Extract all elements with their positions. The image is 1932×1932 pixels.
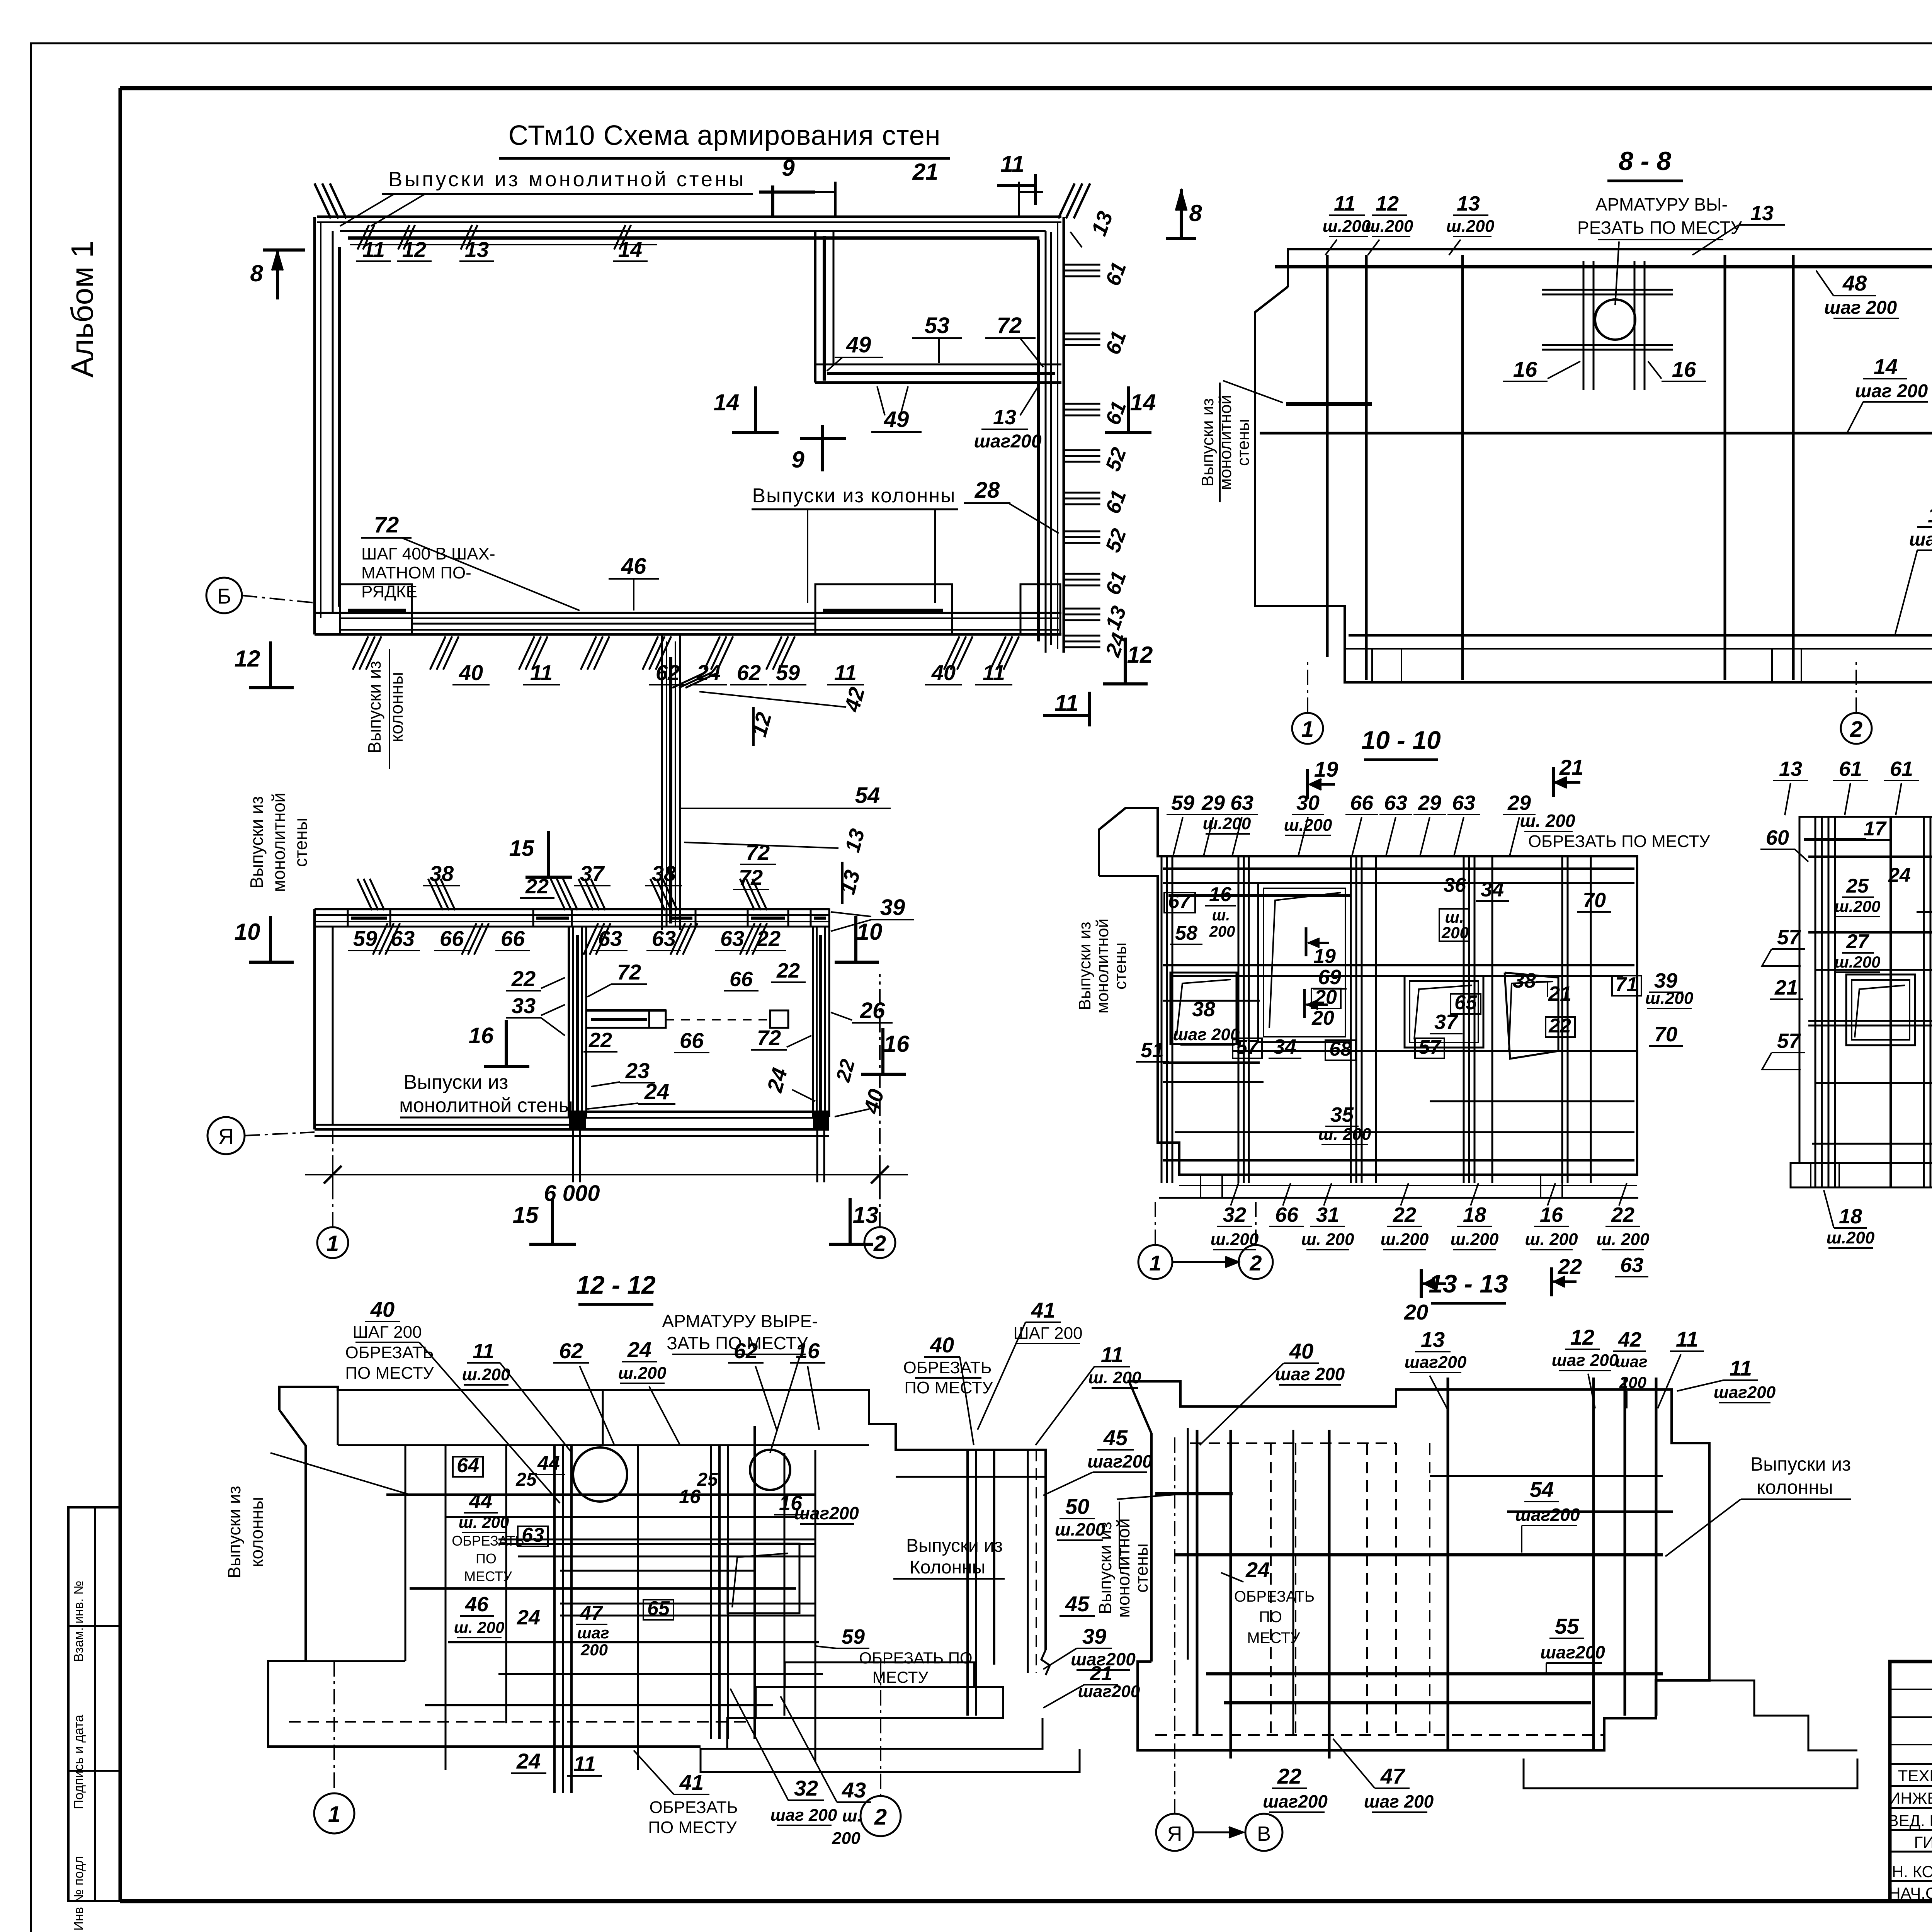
12-12 outline [279, 1387, 1046, 1650]
title block outer [1890, 1662, 1932, 1901]
svg-text:38: 38 [1192, 998, 1215, 1021]
svg-text:ОБРЕЗАТЬ: ОБРЕЗАТЬ [903, 1358, 992, 1377]
svg-text:59: 59 [1171, 791, 1194, 815]
svg-text:колонны: колонны [1757, 1476, 1833, 1498]
svg-text:ш. 200: ш. 200 [1088, 1368, 1142, 1387]
svg-text:ШАГ 400 В ШАХ-: ШАГ 400 В ШАХ- [361, 544, 495, 563]
svg-text:ш. 200: ш. 200 [1301, 1230, 1355, 1249]
svg-text:21: 21 [912, 159, 939, 185]
svg-text:ш.200: ш.200 [1446, 217, 1495, 236]
svg-text:13: 13 [1457, 192, 1480, 215]
svg-text:22: 22 [1277, 1764, 1301, 1788]
svg-text:37: 37 [1434, 1010, 1459, 1034]
svg-text:48: 48 [1842, 271, 1867, 295]
axis circle 2 plan [864, 1227, 895, 1258]
svg-text:54: 54 [855, 783, 880, 808]
svg-text:10: 10 [235, 919, 260, 945]
svg-text:12: 12 [1376, 192, 1399, 215]
svg-text:22: 22 [1611, 1203, 1634, 1226]
svg-text:10: 10 [857, 919, 883, 945]
svg-text:64: 64 [457, 1454, 479, 1477]
svg-text:монолитной стены: монолитной стены [399, 1094, 573, 1117]
svg-text:40: 40 [1289, 1339, 1313, 1363]
svg-text:ГИП: ГИП [1914, 1833, 1932, 1851]
svg-text:ш.200: ш.200 [1203, 814, 1251, 833]
svg-text:72: 72 [997, 313, 1022, 338]
svg-text:Выпуски из: Выпуски из [906, 1536, 1003, 1556]
svg-text:72: 72 [746, 840, 770, 864]
svg-text:шаг200: шаг200 [1078, 1682, 1140, 1701]
svg-text:40: 40 [931, 660, 956, 685]
ticks top-left corner [315, 184, 331, 219]
svg-text:шаг200: шаг200 [974, 431, 1041, 452]
svg-text:монолитной: монолитной [1113, 1518, 1133, 1617]
svg-text:колонны: колонны [247, 1497, 267, 1567]
10-10 outline [1099, 808, 1637, 1175]
svg-text:11: 11 [1334, 192, 1355, 215]
svg-text:25: 25 [515, 1469, 537, 1490]
svg-text:12: 12 [402, 237, 426, 262]
svg-text:ш. 200: ш. 200 [1597, 1230, 1650, 1249]
svg-text:54: 54 [1530, 1477, 1554, 1502]
svg-text:Б: Б [217, 584, 231, 608]
svg-text:44: 44 [469, 1490, 492, 1513]
svg-text:ш. 200: ш. 200 [459, 1513, 509, 1531]
svg-text:Выпуски из колонны: Выпуски из колонны [752, 485, 956, 507]
svg-text:ш.200: ш.200 [1834, 897, 1880, 915]
plan left wall lower segment [313, 909, 316, 1129]
axis circle Ya [207, 1117, 245, 1154]
svg-text:40: 40 [459, 660, 483, 685]
svg-text:21: 21 [1774, 976, 1798, 999]
svg-text:ОБРЕЗАТЬ ПО МЕСТУ: ОБРЕЗАТЬ ПО МЕСТУ [1528, 832, 1711, 851]
svg-text:45: 45 [1065, 1592, 1090, 1616]
svg-text:63: 63 [1620, 1253, 1643, 1277]
svg-text:65: 65 [1454, 992, 1477, 1014]
top wall bar labels 11 12 13 14 [357, 225, 369, 249]
svg-text:ИНЖЕНЕР: ИНЖЕНЕР [1889, 1789, 1932, 1807]
svg-text:63: 63 [1384, 791, 1407, 815]
svg-text:шаг 200: шаг 200 [1173, 1025, 1240, 1044]
13-13 vertical rebar [1196, 1430, 1199, 1735]
svg-text:шаг200: шаг200 [794, 1503, 859, 1523]
svg-text:70: 70 [1583, 889, 1606, 912]
10-10 horizontal rebar [1163, 867, 1634, 870]
svg-text:69: 69 [1318, 966, 1341, 989]
svg-text:шаг 200: шаг 200 [1275, 1364, 1345, 1384]
svg-text:22: 22 [1393, 1203, 1416, 1226]
svg-text:шаг 200: шаг 200 [1909, 529, 1932, 550]
ticks top-right corner [1058, 184, 1075, 219]
svg-text:26: 26 [860, 998, 885, 1023]
svg-text:18: 18 [1463, 1203, 1486, 1226]
svg-text:66: 66 [1350, 791, 1374, 815]
right wall dowels [1064, 264, 1100, 266]
svg-text:66: 66 [501, 926, 525, 951]
svg-text:шаг: шаг [1615, 1352, 1647, 1371]
central vertical wall upper [661, 634, 663, 930]
10-10 mark 20 bottom [1420, 1269, 1423, 1298]
svg-text:ш. 200: ш. 200 [1525, 1230, 1578, 1249]
svg-text:13: 13 [1750, 202, 1774, 225]
svg-text:66: 66 [730, 968, 753, 991]
13-13 axis circles [1174, 1437, 1175, 1814]
svg-text:13: 13 [1779, 757, 1802, 781]
svg-text:16: 16 [469, 1023, 494, 1048]
svg-text:20: 20 [1311, 1007, 1334, 1029]
svg-text:71: 71 [1615, 973, 1638, 996]
svg-text:46: 46 [621, 554, 646, 579]
svg-text:29: 29 [1201, 791, 1225, 815]
svg-text:ОБРЕЗАТЬ: ОБРЕЗАТЬ [1234, 1588, 1315, 1605]
svg-text:Выпуски из: Выпуски из [1075, 922, 1094, 1010]
svg-text:ш. 200: ш. 200 [454, 1618, 505, 1636]
11-11 outline [1799, 817, 1932, 1163]
svg-text:11: 11 [362, 237, 385, 262]
svg-text:39: 39 [1082, 1624, 1106, 1648]
svg-text:25: 25 [1846, 875, 1869, 897]
svg-text:47: 47 [580, 1602, 603, 1624]
svg-text:Выпуски из: Выпуски из [247, 796, 267, 889]
svg-text:11: 11 [1676, 1327, 1698, 1351]
svg-text:44: 44 [537, 1452, 560, 1475]
svg-text:11: 11 [1101, 1342, 1123, 1367]
svg-text:монолитной: монолитной [1216, 395, 1235, 490]
axis circle B [206, 578, 242, 613]
8-8 hole frame [1583, 261, 1585, 390]
svg-text:стены: стены [291, 818, 311, 867]
svg-text:Колонны: Колонны [910, 1557, 985, 1578]
svg-text:ОБРЕЗАТЬ: ОБРЕЗАТЬ [452, 1533, 524, 1549]
svg-text:9: 9 [791, 447, 804, 473]
short wall stub [586, 1009, 666, 1012]
svg-text:18: 18 [1839, 1205, 1862, 1228]
svg-text:32: 32 [794, 1776, 818, 1800]
svg-text:ПО: ПО [1259, 1609, 1282, 1626]
8-8 hole circle [1595, 299, 1635, 340]
svg-text:41: 41 [679, 1770, 704, 1794]
svg-text:57: 57 [1236, 1036, 1259, 1058]
svg-text:12 - 12: 12 - 12 [576, 1270, 656, 1299]
svg-text:10 - 10: 10 - 10 [1361, 726, 1441, 754]
lower central vertical wall [568, 927, 570, 1117]
svg-text:28: 28 [975, 478, 1000, 503]
svg-text:ш.200: ш.200 [1365, 217, 1413, 236]
svg-text:12: 12 [235, 646, 260, 672]
10-10 openings [1258, 883, 1351, 1042]
dim line 6000 [305, 1174, 908, 1175]
svg-text:17: 17 [1864, 818, 1887, 840]
svg-text:57: 57 [1777, 1029, 1801, 1053]
svg-text:11: 11 [573, 1752, 596, 1776]
svg-text:14: 14 [1874, 354, 1898, 379]
svg-text:11: 11 [1000, 151, 1024, 177]
left margin stamp boxes [68, 1507, 120, 1901]
ticks below middle wall [353, 636, 368, 670]
svg-text:200: 200 [1209, 923, 1235, 940]
svg-text:МАТНОМ ПО-: МАТНОМ ПО- [361, 563, 471, 582]
svg-text:16: 16 [1209, 883, 1232, 906]
axis line 2 [879, 974, 881, 1227]
svg-text:11: 11 [983, 660, 1005, 685]
12-12 circles [573, 1447, 627, 1502]
dim 21 top [834, 182, 837, 216]
svg-text:24: 24 [517, 1606, 540, 1629]
svg-text:66: 66 [680, 1028, 704, 1053]
svg-text:шаг 200: шаг 200 [1552, 1351, 1619, 1370]
svg-text:13: 13 [465, 237, 489, 262]
svg-text:ОБРЕЗАТЬ: ОБРЕЗАТЬ [345, 1343, 434, 1362]
plan right wall [1063, 217, 1065, 653]
plan bottom wall [569, 1111, 829, 1113]
11-11 opening [1846, 975, 1915, 1045]
10-10 mark 19 inner [1305, 927, 1308, 956]
svg-text:21: 21 [1559, 755, 1583, 779]
13-13 outline [1129, 1381, 1709, 1750]
svg-text:72: 72 [757, 1026, 781, 1050]
svg-text:63: 63 [1452, 791, 1475, 815]
svg-text:ОБРЕЗАТЬ: ОБРЕЗАТЬ [649, 1798, 738, 1817]
svg-text:ПО МЕСТУ: ПО МЕСТУ [345, 1364, 434, 1383]
svg-text:60: 60 [1766, 826, 1789, 849]
svg-text:Альбом 1: Альбом 1 [65, 241, 99, 378]
svg-text:34: 34 [1481, 878, 1504, 901]
svg-text:шаг200: шаг200 [1515, 1505, 1580, 1525]
10-10 vertical rebar groups [1161, 856, 1163, 1183]
svg-text:13: 13 [853, 1202, 879, 1228]
svg-text:1: 1 [1301, 717, 1314, 742]
svg-text:Инв № подл: Инв № подл [71, 1856, 86, 1931]
svg-text:Выпуски из: Выпуски из [404, 1071, 509, 1094]
svg-text:38: 38 [652, 861, 676, 886]
svg-text:12: 12 [1127, 642, 1153, 668]
svg-text:67: 67 [1168, 890, 1191, 913]
right lower vertical wall [812, 927, 814, 1117]
svg-text:шаг200: шаг200 [1087, 1451, 1152, 1471]
svg-text:8 - 8: 8 - 8 [1619, 146, 1671, 176]
svg-text:шаг 200: шаг 200 [1364, 1791, 1434, 1811]
svg-text:2: 2 [1850, 717, 1862, 742]
svg-text:ш. 200: ш. 200 [1318, 1125, 1372, 1144]
svg-text:шаг 200: шаг 200 [1824, 298, 1897, 318]
8-8 axis circles [1307, 657, 1308, 713]
svg-text:63: 63 [720, 926, 744, 951]
svg-text:ш.200: ш.200 [1323, 217, 1371, 236]
svg-text:63: 63 [522, 1524, 544, 1546]
svg-text:62: 62 [559, 1338, 583, 1363]
svg-text:Я: Я [218, 1124, 234, 1148]
dowels 42 on central wall [672, 672, 706, 688]
plan annex bottom wall [815, 364, 1061, 366]
svg-text:шаг 200: шаг 200 [770, 1806, 837, 1825]
svg-text:59: 59 [353, 926, 377, 951]
axis line 1 [332, 966, 333, 1227]
svg-text:шаг200: шаг200 [1263, 1791, 1328, 1811]
svg-text:Выпуски из: Выпуски из [1750, 1453, 1851, 1475]
staff table [1890, 1689, 1932, 1690]
svg-text:70: 70 [1654, 1023, 1677, 1046]
13-13 horizontal rebar [1155, 1492, 1233, 1495]
11-11 horizontal rebar [1808, 855, 1932, 858]
13-13 lower platform [1524, 1759, 1857, 1788]
plan annex left wall [814, 231, 816, 383]
svg-text:16: 16 [1540, 1203, 1563, 1226]
13-13 dashed columns [1270, 1443, 1272, 1735]
svg-text:Выпуски из: Выпуски из [224, 1486, 244, 1578]
svg-text:ПО МЕСТУ: ПО МЕСТУ [648, 1818, 737, 1837]
svg-text:45: 45 [1103, 1425, 1128, 1450]
svg-text:50: 50 [1065, 1494, 1089, 1519]
12-12 horizontal rebar [386, 1493, 815, 1496]
svg-text:57: 57 [1777, 926, 1801, 949]
svg-text:49: 49 [846, 332, 871, 357]
svg-text:35: 35 [1330, 1103, 1354, 1126]
svg-text:ш.200: ш.200 [618, 1364, 667, 1383]
svg-text:22: 22 [776, 959, 800, 982]
svg-text:29: 29 [1418, 791, 1441, 815]
plan top wall [317, 216, 1061, 218]
middle wall B axis [315, 612, 1061, 614]
svg-text:1: 1 [328, 1802, 340, 1827]
svg-text:33: 33 [512, 993, 536, 1018]
12-12 axis circles [333, 1661, 335, 1793]
svg-text:66: 66 [1275, 1203, 1299, 1226]
svg-text:шаг200: шаг200 [1714, 1383, 1776, 1402]
svg-text:ОБРЕЗАТЬ ПО: ОБРЕЗАТЬ ПО [859, 1649, 972, 1667]
svg-text:В: В [1257, 1822, 1271, 1845]
svg-text:8: 8 [250, 260, 263, 286]
svg-text:АРМАТУРУ ВЫ-: АРМАТУРУ ВЫ- [1595, 194, 1728, 214]
svg-text:11: 11 [1054, 690, 1078, 716]
10-10 mark 19 top [1306, 769, 1309, 799]
svg-text:ш.200: ш.200 [1827, 1228, 1875, 1247]
svg-text:20: 20 [1404, 1300, 1428, 1324]
svg-text:53: 53 [925, 313, 950, 338]
svg-text:38: 38 [430, 861, 454, 886]
svg-text:РЕЗАТЬ ПО МЕСТУ: РЕЗАТЬ ПО МЕСТУ [1577, 218, 1742, 238]
svg-text:ш.200: ш.200 [1834, 953, 1880, 971]
8-8 footing [1345, 648, 1932, 650]
svg-text:стены: стены [1234, 419, 1253, 466]
svg-text:57: 57 [1418, 1036, 1442, 1058]
svg-text:37: 37 [580, 861, 605, 886]
svg-text:Выпуски из монолитной стены: Выпуски из монолитной стены [388, 168, 746, 191]
svg-text:16: 16 [884, 1031, 910, 1057]
svg-text:68: 68 [1329, 1038, 1352, 1060]
svg-text:200: 200 [580, 1641, 608, 1659]
section mark 8 left [263, 248, 305, 252]
svg-text:24: 24 [516, 1749, 541, 1773]
12-12 break mark right [1041, 1650, 1050, 1675]
svg-text:13: 13 [1421, 1327, 1445, 1352]
svg-text:НАЧ.ОТЭП: НАЧ.ОТЭП [1889, 1884, 1932, 1902]
plan left wall upper [313, 217, 316, 634]
11-11 vertical rebar [1815, 817, 1816, 1187]
svg-text:13 - 13: 13 - 13 [1429, 1269, 1508, 1298]
svg-text:монолитной: монолитной [269, 793, 289, 892]
11-11 footing [1791, 1163, 1932, 1187]
10-10 mark 20 inner [1303, 989, 1306, 1018]
svg-text:ш.: ш. [1212, 907, 1230, 924]
svg-text:Выпуски из: Выпуски из [1095, 1522, 1115, 1614]
svg-text:11: 11 [834, 660, 857, 685]
svg-text:Я: Я [1167, 1822, 1182, 1845]
8-8 left dowel bar [1286, 402, 1372, 406]
svg-text:51: 51 [1141, 1039, 1164, 1062]
svg-text:24: 24 [644, 1079, 670, 1104]
svg-text:22: 22 [588, 1029, 612, 1052]
svg-text:2: 2 [1249, 1251, 1262, 1275]
svg-text:36: 36 [1444, 874, 1466, 896]
svg-text:Выпуски из: Выпуски из [1198, 398, 1217, 486]
svg-text:ш. 200: ш. 200 [1520, 811, 1575, 831]
svg-text:ш.200: ш.200 [1381, 1230, 1429, 1249]
svg-text:8: 8 [1189, 200, 1202, 226]
12-12 vertical rebar [445, 1445, 447, 1770]
svg-text:59: 59 [842, 1625, 865, 1648]
svg-text:46: 46 [465, 1593, 489, 1616]
svg-text:19: 19 [1313, 945, 1336, 968]
svg-text:63: 63 [1230, 791, 1253, 815]
plan lower wall [315, 908, 829, 910]
10-10 mark 21 top [1552, 767, 1555, 797]
svg-text:22: 22 [511, 966, 536, 991]
svg-text:72: 72 [374, 512, 399, 537]
svg-text:61: 61 [1890, 757, 1913, 781]
svg-text:1: 1 [327, 1231, 339, 1256]
8-8 vertical rebar [1326, 255, 1329, 657]
middle wall rebar line [412, 623, 815, 625]
svg-text:65: 65 [647, 1597, 670, 1620]
svg-text:32: 32 [1223, 1203, 1246, 1226]
svg-text:ш.200: ш.200 [1451, 1230, 1499, 1249]
svg-text:19: 19 [1314, 757, 1338, 781]
svg-text:63: 63 [391, 926, 415, 951]
10-10 mark 22 bottom [1550, 1267, 1553, 1296]
svg-text:ш.: ш. [842, 1806, 862, 1825]
12-12 opening [728, 1544, 799, 1613]
svg-text:16: 16 [679, 1486, 701, 1507]
svg-text:Выпуски из: Выпуски из [364, 661, 384, 753]
svg-text:40: 40 [370, 1297, 395, 1321]
ticks below lower wall [373, 923, 388, 955]
svg-text:2: 2 [874, 1804, 887, 1830]
svg-text:Взам. инв. №: Взам. инв. № [71, 1581, 86, 1662]
svg-text:13: 13 [993, 406, 1016, 429]
12-12 slab lines [602, 1390, 604, 1445]
svg-text:2: 2 [873, 1231, 886, 1256]
dowels below bottom wall [572, 1129, 574, 1182]
section mark 8 right [1166, 237, 1196, 240]
svg-text:34: 34 [1273, 1035, 1296, 1058]
svg-text:ПО МЕСТУ: ПО МЕСТУ [904, 1378, 993, 1397]
8-8 outline [1255, 249, 1932, 682]
inner drawing frame [120, 86, 1932, 90]
svg-text:14: 14 [714, 389, 740, 415]
svg-text:15: 15 [509, 836, 534, 861]
svg-text:200: 200 [1441, 923, 1469, 942]
axis circle 1 plan [317, 1227, 348, 1258]
svg-text:38: 38 [1513, 969, 1536, 992]
svg-text:49: 49 [884, 407, 909, 432]
svg-text:шаг200: шаг200 [1540, 1642, 1605, 1662]
svg-text:стены: стены [1111, 942, 1130, 990]
10-10 axis circles [1155, 1198, 1156, 1245]
svg-text:66: 66 [440, 926, 464, 951]
svg-text:МЕСТУ: МЕСТУ [1247, 1629, 1300, 1646]
svg-text:11: 11 [530, 660, 553, 685]
svg-text:16: 16 [1513, 357, 1537, 381]
